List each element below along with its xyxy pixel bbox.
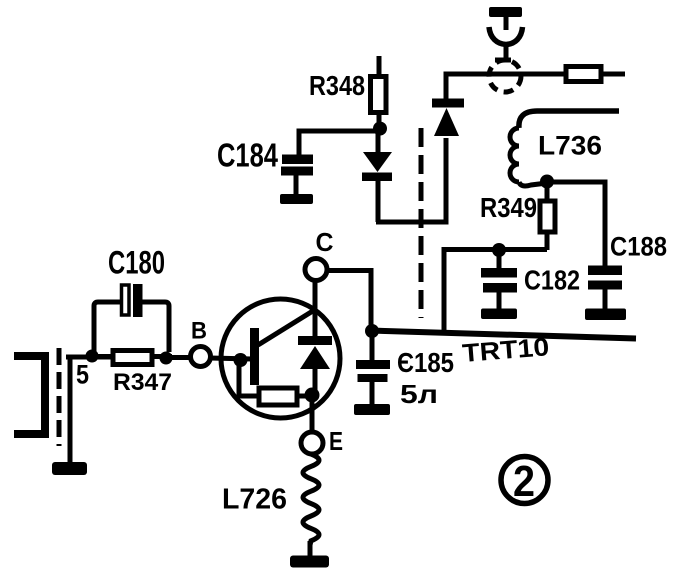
main line TRT10 xyxy=(369,331,636,339)
wire: D2 to top line xyxy=(446,74,566,100)
input terminal bracket (left) xyxy=(14,356,45,434)
capacitor C185 xyxy=(354,336,390,415)
emitter junction dot xyxy=(305,388,320,403)
svg-text:E: E xyxy=(329,426,343,456)
svg-text:L726: L726 xyxy=(222,484,287,516)
inductor L736 xyxy=(510,111,619,186)
wire: diode chain bottom bar xyxy=(376,138,446,222)
diode D1 (pointing down) xyxy=(362,132,392,222)
internal diode (cathode bar + triangle) xyxy=(298,336,332,390)
svg-text:C182: C182 xyxy=(524,265,580,296)
wire: B terminal into transistor xyxy=(210,358,252,359)
wire: bottom row to main line xyxy=(444,250,547,333)
svg-text:R348: R348 xyxy=(309,70,365,101)
dashed shield line (left) xyxy=(57,348,62,446)
ground (left) xyxy=(52,357,87,475)
svg-text:2: 2 xyxy=(513,457,535,506)
wire: C184 to R348 junction xyxy=(299,131,378,157)
svg-text:B: B xyxy=(191,318,207,345)
transistor collector lead xyxy=(313,277,318,340)
resistor R348 xyxy=(371,56,387,126)
junction dot below R348 xyxy=(373,122,387,136)
main node junction dot xyxy=(365,324,379,338)
junction dot (L736 bottom) xyxy=(540,175,554,189)
node 5 junction dot xyxy=(86,350,99,363)
svg-text:Є185: Є185 xyxy=(397,347,454,378)
transistor collector diagonal xyxy=(258,309,316,345)
svg-text:C184: C184 xyxy=(217,137,279,174)
diode D2 (pointing up) xyxy=(432,99,464,137)
svg-text:5л: 5л xyxy=(400,379,438,409)
capacitor C182 xyxy=(481,255,517,319)
wire: collector terminal to main node xyxy=(327,271,371,326)
emitter terminal circle E xyxy=(301,432,323,454)
dashed circle (adjustment point) xyxy=(489,60,521,92)
svg-text:R347: R347 xyxy=(113,369,172,396)
resistor R349 xyxy=(540,186,555,250)
ground (bottom, under L726) xyxy=(290,556,329,568)
transistor base bar xyxy=(250,328,259,385)
svg-text:C188: C188 xyxy=(610,232,667,262)
svg-text:L736: L736 xyxy=(538,131,602,161)
transistor Q1 envelope circle xyxy=(221,299,340,418)
wire: junction to base terminal xyxy=(166,355,191,360)
tuning core symbol (top) xyxy=(489,7,523,60)
capacitor C180 (with loop wires) xyxy=(94,284,169,354)
wire: terminal to node 5 xyxy=(66,355,115,360)
svg-text:5: 5 xyxy=(76,360,89,390)
collector terminal circle C xyxy=(305,259,327,281)
internal resistor xyxy=(239,364,307,405)
capacitor C184 xyxy=(280,155,313,205)
capacitor C188 xyxy=(585,266,626,321)
resistor R347 xyxy=(92,351,172,365)
inductor L726 xyxy=(303,454,319,557)
junction dot above C182 xyxy=(492,243,506,257)
svg-text:C180: C180 xyxy=(108,245,165,281)
resistor (top right) xyxy=(566,67,625,82)
wire: L736 node to C188 xyxy=(547,182,605,266)
circled 2 marker xyxy=(501,457,548,507)
junction dot right of R347 xyxy=(160,352,173,365)
base terminal circle B xyxy=(191,347,211,367)
dashed line (center) xyxy=(419,128,424,318)
svg-text:R349: R349 xyxy=(480,192,537,223)
svg-text:C: C xyxy=(316,227,334,257)
base junction dot xyxy=(234,353,248,367)
emitter lead xyxy=(310,400,315,433)
